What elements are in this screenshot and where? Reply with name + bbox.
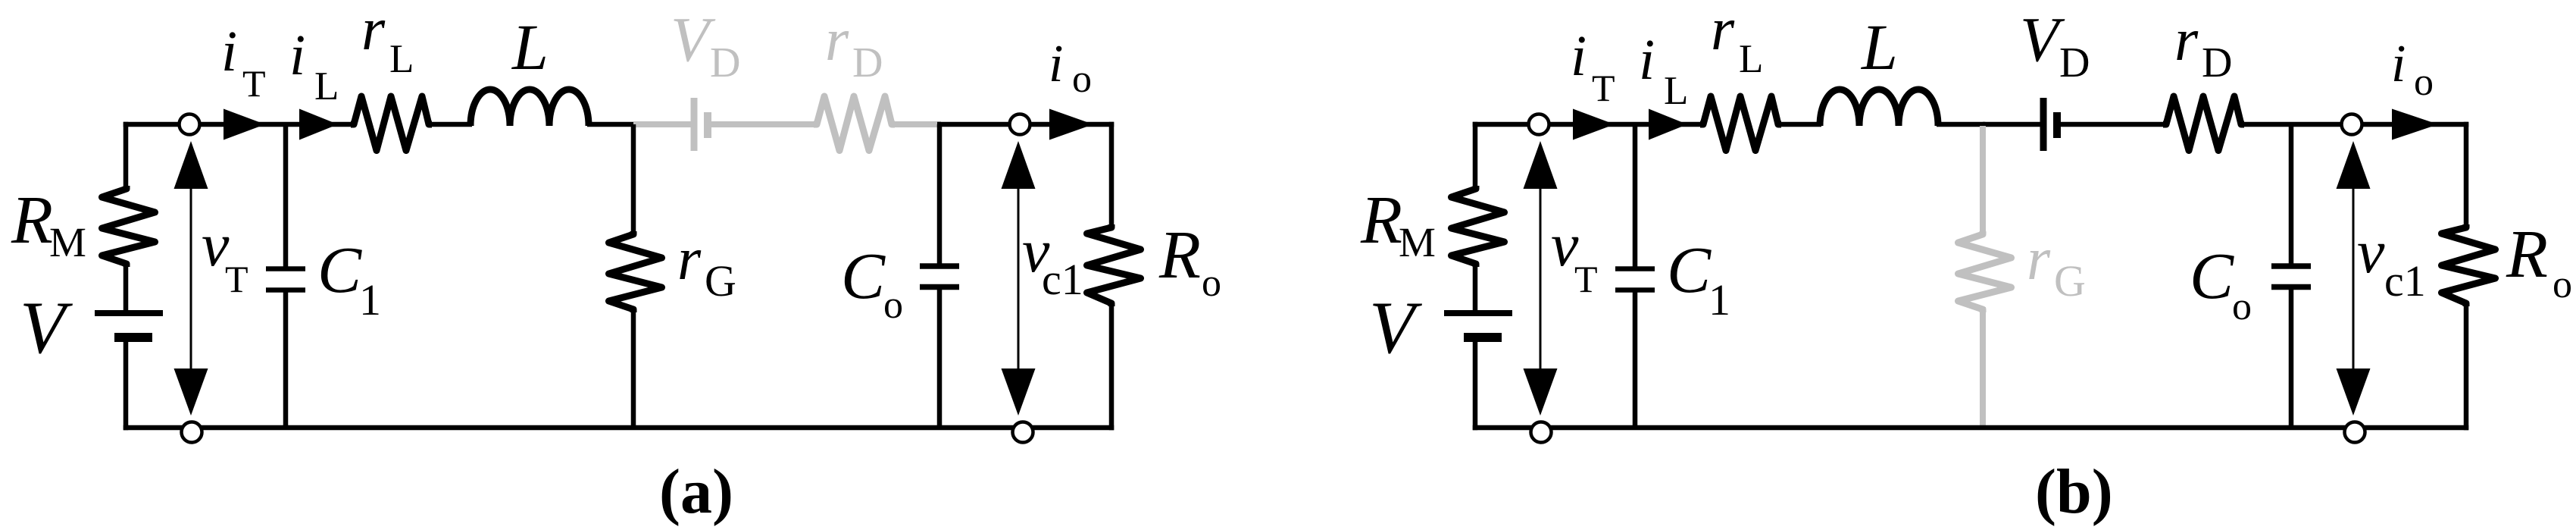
svg-text:L: L xyxy=(1860,11,1898,83)
svg-text:T: T xyxy=(1592,67,1615,109)
svg-text:1: 1 xyxy=(359,275,381,325)
svg-text:L: L xyxy=(1664,69,1688,113)
svg-text:V: V xyxy=(671,5,716,75)
svg-text:R: R xyxy=(1158,218,1201,293)
svg-text:L: L xyxy=(511,11,549,83)
svg-text:L: L xyxy=(389,37,414,81)
svg-text:L: L xyxy=(314,64,339,108)
svg-text:o: o xyxy=(2232,285,2252,328)
svg-text:D: D xyxy=(852,39,883,86)
svg-text:r: r xyxy=(2027,226,2051,293)
svg-text:M: M xyxy=(1399,219,1436,265)
svg-text:c1: c1 xyxy=(2384,256,2426,306)
svg-text:i: i xyxy=(289,24,305,87)
svg-text:T: T xyxy=(225,258,249,300)
svg-text:G: G xyxy=(705,256,736,306)
svg-text:C: C xyxy=(841,239,886,312)
svg-text:G: G xyxy=(2054,256,2086,306)
svg-text:r: r xyxy=(1711,0,1735,63)
svg-text:V: V xyxy=(20,287,73,369)
svg-text:o: o xyxy=(2553,263,2572,306)
svg-text:T: T xyxy=(1574,258,1598,300)
svg-text:o: o xyxy=(1202,262,1221,305)
svg-text:R: R xyxy=(2506,217,2548,292)
svg-text:R: R xyxy=(1360,183,1402,258)
svg-text:i: i xyxy=(1571,24,1587,88)
svg-text:R: R xyxy=(11,183,53,258)
svg-text:o: o xyxy=(883,284,903,327)
svg-text:D: D xyxy=(2202,39,2232,86)
svg-text:1: 1 xyxy=(1708,275,1730,325)
svg-text:C: C xyxy=(317,233,362,306)
svg-text:V: V xyxy=(1369,287,1422,369)
svg-text:L: L xyxy=(1739,37,1763,81)
svg-text:r: r xyxy=(361,0,386,63)
svg-text:r: r xyxy=(677,226,702,293)
svg-text:v: v xyxy=(2357,217,2385,286)
svg-text:(b): (b) xyxy=(2035,456,2113,527)
svg-text:c1: c1 xyxy=(1042,255,1083,304)
svg-text:V: V xyxy=(2020,5,2065,75)
svg-text:i: i xyxy=(1639,28,1655,92)
svg-text:r: r xyxy=(2174,7,2199,74)
svg-text:o: o xyxy=(2414,61,2434,104)
svg-text:C: C xyxy=(1667,233,1712,306)
svg-text:i: i xyxy=(1049,35,1063,93)
svg-text:o: o xyxy=(1072,58,1092,101)
svg-text:i: i xyxy=(221,20,237,83)
svg-text:(a): (a) xyxy=(659,456,733,527)
svg-text:D: D xyxy=(2059,39,2090,86)
svg-text:M: M xyxy=(49,219,86,265)
svg-text:r: r xyxy=(825,7,849,74)
svg-text:C: C xyxy=(2190,239,2234,312)
svg-text:T: T xyxy=(242,62,266,105)
svg-text:D: D xyxy=(710,39,740,86)
svg-text:i: i xyxy=(2391,35,2406,93)
